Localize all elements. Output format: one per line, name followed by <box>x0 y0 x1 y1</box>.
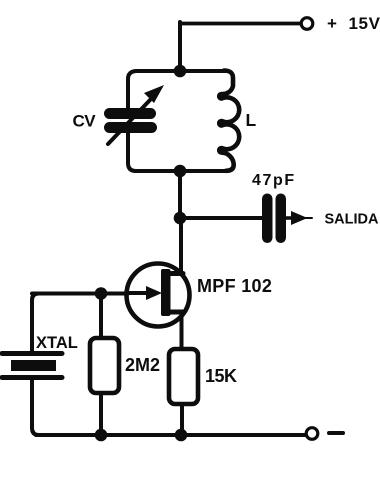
node gate junction <box>95 287 108 300</box>
svg-text:2M2: 2M2 <box>125 355 160 375</box>
svg-text:SALIDA: SALIDA <box>325 212 380 228</box>
svg-text:47pF: 47pF <box>252 172 296 189</box>
crystal XTAL <box>2 354 62 378</box>
node output junction <box>174 212 187 225</box>
wire supply vertical to tank <box>178 22 182 71</box>
svg-text:L: L <box>246 110 257 130</box>
svg-text:15K: 15K <box>205 366 237 386</box>
wire tank bottom to output node <box>178 171 182 218</box>
terminal +15V <box>301 18 313 30</box>
capacitor C1 47pF plates <box>262 194 286 244</box>
inductor L coil <box>219 71 239 171</box>
wire tank top rail <box>136 69 225 73</box>
wire gate to crystal corner <box>32 294 39 353</box>
wire CV bottom lead with corner <box>128 132 136 171</box>
wire drain vertical <box>179 218 183 273</box>
wire resistor R2 bottom lead <box>180 404 184 435</box>
wire top supply horizontal <box>180 22 300 26</box>
node tank top junction <box>174 65 187 78</box>
wire source vertical <box>180 312 184 350</box>
wire resistor R1 bottom lead <box>99 393 103 435</box>
wire tank bottom rail <box>135 169 226 173</box>
wire gate horizontal <box>32 292 128 296</box>
node tank bottom junction <box>174 165 187 178</box>
node bottom rail junction R2 <box>175 429 188 442</box>
resistor R1 2M2 <box>90 338 119 393</box>
wire CV top lead with corner <box>128 71 137 109</box>
node bottom rail junction R1 <box>95 429 108 442</box>
svg-text:CV: CV <box>73 112 97 131</box>
terminal negative <box>306 428 318 440</box>
capacitor CV plates <box>104 108 157 133</box>
arrow salida output <box>286 211 312 225</box>
capacitor CV arrow <box>108 85 164 144</box>
svg-text:MPF 102: MPF 102 <box>197 276 272 296</box>
label +15V <box>327 14 380 33</box>
wire output node to capacitor <box>180 216 262 220</box>
resistor R2 15K <box>169 349 198 404</box>
svg-text:+: + <box>327 14 337 33</box>
transistor Q1 MPF102 <box>126 264 190 327</box>
svg-text:15V: 15V <box>349 14 380 33</box>
wire crystal to bottom rail <box>32 380 39 435</box>
wire resistor R1 top lead <box>99 294 103 341</box>
label minus <box>329 431 343 435</box>
wire bottom rail <box>36 433 305 437</box>
svg-text:XTAL: XTAL <box>36 334 78 352</box>
